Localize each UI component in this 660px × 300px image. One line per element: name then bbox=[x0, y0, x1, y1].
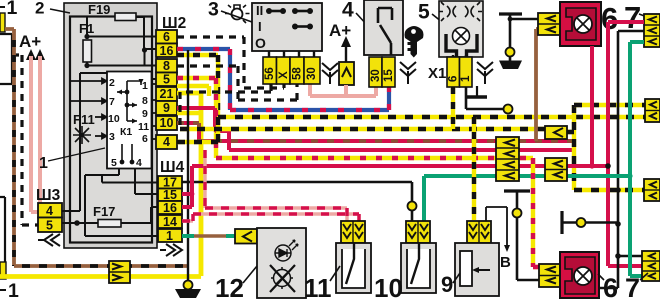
svg-text:X: X bbox=[278, 71, 290, 79]
svg-text:30: 30 bbox=[370, 69, 382, 82]
relay K1 bbox=[107, 72, 152, 170]
wire: crimson from 6a down bbox=[590, 46, 594, 166]
wire: yb lower right bbox=[574, 188, 644, 192]
continuation arrows Sh3 bbox=[38, 234, 60, 246]
svg-text:5: 5 bbox=[418, 1, 430, 24]
svg-text:F17: F17 bbox=[93, 204, 115, 219]
svg-text:10: 10 bbox=[160, 116, 174, 130]
wire: yellow-black upper short bbox=[177, 55, 218, 117]
wire: pink-crimson branch to switch 11 bbox=[205, 150, 347, 221]
lamp in cluster bbox=[453, 28, 470, 45]
A+ arrow bbox=[345, 44, 347, 62]
ignition terminals bbox=[369, 57, 395, 87]
switch 9 connector bbox=[467, 221, 491, 243]
wire: black from connector bbox=[598, 31, 644, 288]
switch 3 terminals bbox=[263, 57, 320, 84]
connector right at 190 bbox=[644, 179, 660, 201]
svg-text:58: 58 bbox=[292, 67, 304, 80]
wire: Sh4:14 pink-crimson to switch 11 bbox=[182, 214, 359, 221]
relay K1 feeds bbox=[71, 79, 107, 139]
lamp 6b body bbox=[560, 252, 599, 298]
headlight icons bbox=[439, 2, 482, 21]
switch 10 body bbox=[401, 243, 436, 293]
fuse F19 bbox=[88, 2, 157, 65]
T-bar power tap bbox=[499, 12, 522, 15]
switch 3 body bbox=[252, 3, 322, 51]
headlamp 1 (bottom, cut off) bbox=[0, 197, 5, 262]
svg-text:3: 3 bbox=[109, 131, 115, 143]
svg-text:11: 11 bbox=[304, 273, 332, 300]
wire: yellow short stub bbox=[177, 86, 209, 96]
continuation arrows Sh4 bbox=[160, 244, 182, 256]
wire: yellow bus bottom bbox=[0, 274, 201, 279]
svg-text:16: 16 bbox=[163, 201, 177, 215]
svg-text:К1: К1 bbox=[120, 126, 132, 138]
svg-text:I: I bbox=[258, 19, 262, 34]
connector right mid bbox=[645, 99, 660, 122]
svg-text:9: 9 bbox=[441, 272, 453, 297]
svg-text:Ш3: Ш3 bbox=[36, 187, 61, 204]
label 1 top bbox=[0, 6, 5, 8]
wire: lamp 6a black bbox=[510, 18, 538, 21]
wire: Sh4:17 black to switch 10 bbox=[182, 182, 412, 221]
svg-text:4: 4 bbox=[342, 0, 354, 22]
svg-text:F11: F11 bbox=[73, 112, 95, 127]
svg-text:2: 2 bbox=[109, 77, 115, 89]
fuse F17 bbox=[62, 204, 158, 227]
wire: crimson from connector bbox=[608, 22, 644, 266]
wire: Sh2:4 yellow-black bus B1 bbox=[177, 117, 645, 142]
switch 3 contacts bbox=[269, 11, 310, 27]
svg-text:6: 6 bbox=[448, 76, 460, 82]
svg-text:3: 3 bbox=[208, 0, 219, 21]
svg-text:7: 7 bbox=[625, 273, 640, 300]
svg-text:30: 30 bbox=[306, 67, 318, 80]
wire: yellow-crimson down to lamp 6b bbox=[533, 158, 539, 267]
continuation arrows right of switch 3 bbox=[322, 63, 338, 84]
wire: brown-black bus bbox=[14, 264, 188, 268]
svg-text:F19: F19 bbox=[88, 2, 110, 17]
svg-text:В: В bbox=[500, 254, 511, 271]
wire: brown-black to bottom bus bbox=[5, 29, 14, 266]
svg-text:56: 56 bbox=[264, 67, 276, 80]
connector single (A+) bbox=[339, 62, 354, 85]
crossed lamp icon bbox=[270, 265, 295, 292]
headlamp 1 (top, cut off) bbox=[0, 34, 12, 84]
svg-text:2: 2 bbox=[35, 0, 44, 18]
wire: Sh4:15/16 crimson bus B6 bbox=[182, 166, 608, 207]
connector 2-stack mid bbox=[545, 158, 567, 181]
wire: switch 56 to bus B2 yellow-black bbox=[180, 84, 271, 129]
wire: lamp 6a brown down to B3 bbox=[536, 29, 538, 141]
wire: Sh2:16 blue-crimson to ignition 15 bbox=[177, 49, 389, 110]
lamp symbol near F11 bbox=[73, 126, 91, 144]
svg-text:5: 5 bbox=[111, 157, 117, 169]
A+ arrowheads bbox=[26, 49, 45, 60]
wire: white-black to Sh3:5 bbox=[12, 55, 38, 225]
continuation arrows right of ignition bbox=[400, 62, 416, 84]
connector right top triple bbox=[644, 14, 660, 47]
wire: X1:1 black to node bbox=[466, 87, 505, 109]
connector 4-stack bbox=[496, 137, 519, 181]
svg-text:5: 5 bbox=[163, 73, 170, 87]
svg-text:Ш4: Ш4 bbox=[160, 159, 185, 176]
svg-text:10: 10 bbox=[374, 273, 403, 300]
rheostat 9 body bbox=[455, 243, 499, 296]
wire: Sh2:9 crimson bus B4 bbox=[177, 108, 574, 150]
wire: Sh3 pin4 path inside block bbox=[62, 73, 157, 211]
node on black to switch 10 bbox=[408, 202, 417, 211]
svg-text:1: 1 bbox=[460, 75, 472, 82]
lamp 6a body bbox=[560, 2, 601, 46]
ground top bbox=[499, 61, 522, 70]
svg-text:6: 6 bbox=[163, 30, 170, 44]
key icon bbox=[405, 26, 424, 58]
wire: X1:6 yellow-black down bbox=[451, 87, 455, 129]
T-bar mid center bbox=[504, 189, 530, 192]
switch 3 pin stubs bbox=[269, 51, 314, 57]
wire: pink bus bbox=[310, 84, 376, 96]
wire: Sh2:10 brown-crimson bus B3 bbox=[177, 123, 574, 141]
wire: green from connector bbox=[630, 42, 644, 276]
svg-text:7: 7 bbox=[109, 96, 115, 108]
svg-text:6: 6 bbox=[142, 133, 148, 145]
ground bottom left bbox=[184, 281, 193, 290]
svg-text:1: 1 bbox=[7, 0, 18, 19]
wire: Sh2:6 white-black to switch X bbox=[177, 37, 284, 88]
svg-text:11: 11 bbox=[138, 121, 149, 133]
svg-text:1: 1 bbox=[166, 229, 173, 243]
wire: Sh2:21 yellow to bottom bus bbox=[177, 93, 201, 276]
svg-text:16: 16 bbox=[160, 44, 174, 58]
svg-text:A+: A+ bbox=[19, 32, 41, 51]
svg-text:1: 1 bbox=[39, 155, 48, 172]
connector single at 132 bbox=[545, 126, 567, 139]
connector pair bottom-left bbox=[109, 261, 130, 283]
node bbox=[506, 48, 515, 57]
svg-text:O: O bbox=[255, 35, 266, 51]
wire: pink 1 bbox=[31, 56, 38, 212]
svg-text:6: 6 bbox=[603, 273, 618, 300]
wire: Sh2:8 white-black to switch 58 bbox=[177, 66, 297, 100]
wire: Sh4:1 green-brown to lamp 12 bbox=[182, 234, 194, 238]
B arrow path bbox=[486, 207, 507, 247]
wire: yellow stub lower bbox=[177, 111, 201, 115]
connector bottom headlamp bbox=[0, 262, 6, 279]
svg-text:12: 12 bbox=[215, 273, 244, 300]
continuation arrows right of X1 bbox=[477, 62, 493, 84]
svg-text:10: 10 bbox=[108, 113, 120, 125]
LED icon bbox=[275, 240, 298, 261]
svg-text:8: 8 bbox=[142, 95, 148, 107]
bulb icon bbox=[225, 5, 250, 23]
svg-text:4: 4 bbox=[136, 157, 142, 169]
svg-text:15: 15 bbox=[383, 69, 395, 82]
connector 6a bbox=[538, 13, 560, 35]
lamp unit 12 body bbox=[257, 228, 306, 298]
T-bar mid right bbox=[560, 211, 563, 234]
svg-text:4: 4 bbox=[46, 204, 53, 218]
wire: yb top right bbox=[574, 103, 645, 107]
connector 6b bbox=[539, 264, 560, 287]
svg-text:1: 1 bbox=[142, 80, 148, 92]
svg-text:II: II bbox=[256, 3, 263, 18]
svg-text:4: 4 bbox=[163, 135, 170, 149]
svg-text:8: 8 bbox=[163, 59, 170, 73]
svg-text:5: 5 bbox=[46, 219, 53, 233]
wire: pink 2 bbox=[38, 56, 42, 206]
mounting block body (component 2) bbox=[64, 3, 157, 248]
label 1 bottom bbox=[0, 289, 6, 291]
svg-text:X1: X1 bbox=[428, 65, 446, 82]
node circle bbox=[504, 105, 513, 114]
svg-text:14: 14 bbox=[163, 215, 177, 229]
wire: yellow-black to switch 9 bbox=[472, 117, 476, 220]
switch 10 connector bbox=[406, 221, 430, 243]
connector right bottom bbox=[642, 251, 660, 281]
svg-text:9: 9 bbox=[142, 108, 148, 120]
svg-text:1: 1 bbox=[8, 280, 19, 300]
wire: black ground vertical bbox=[187, 50, 189, 285]
connector 12 bbox=[235, 229, 257, 244]
small ground bar under X1 arrows bbox=[476, 86, 478, 96]
fuse F1 bbox=[79, 17, 157, 68]
connector on headlamp 1 bbox=[0, 13, 5, 32]
svg-text:9: 9 bbox=[163, 101, 170, 115]
wire: green bus bbox=[424, 176, 630, 221]
svg-text:15: 15 bbox=[163, 188, 177, 202]
switch 11 connector bbox=[341, 221, 365, 243]
switch 11 body bbox=[336, 243, 371, 293]
wire: Sh2:5 yellow-crimson bus B5 bbox=[177, 78, 533, 158]
svg-text:21: 21 bbox=[160, 87, 174, 101]
relay outputs to Sh4 bbox=[85, 168, 158, 236]
cluster pin stubs bbox=[453, 55, 466, 57]
svg-text:A+: A+ bbox=[329, 21, 351, 40]
relay outputs to Sh2 bbox=[151, 84, 157, 139]
